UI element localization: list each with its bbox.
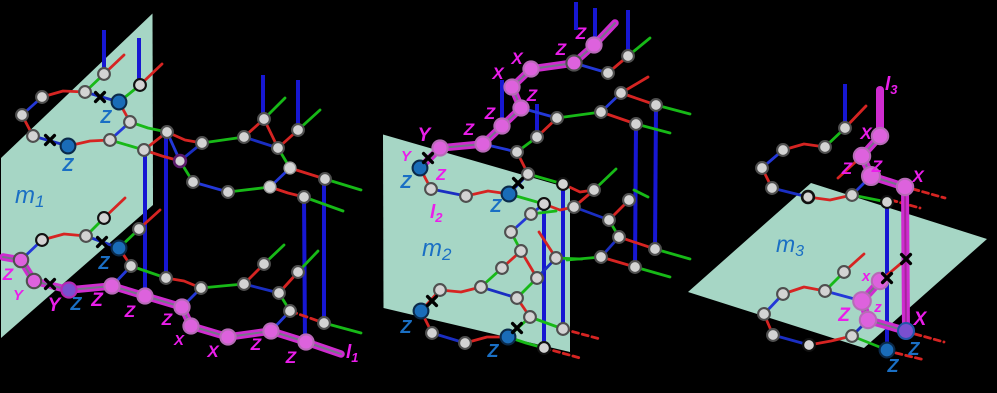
- green dangling edge from u1: [594, 169, 616, 190]
- svg-text:Z: Z: [487, 341, 500, 361]
- violet node bm2 (on path): [61, 282, 76, 297]
- blue edge d-w: [601, 237, 619, 257]
- x marker on edge n5-b1: [46, 136, 55, 145]
- path node r1: [872, 128, 888, 144]
- red edge t3-t4: [783, 287, 825, 294]
- green edge t1-g3: [528, 174, 563, 184]
- green edge t4-t2: [825, 272, 844, 291]
- node n21: [319, 173, 331, 185]
- red edge bm-m7: [119, 248, 131, 266]
- node k6: [496, 262, 508, 274]
- blue edge n5-b1: [33, 136, 68, 146]
- green edge l7-l8: [530, 317, 563, 329]
- green edge bm-n22: [119, 229, 139, 248]
- logical string l1 (thick magenta path): [3, 257, 341, 354]
- vertical edge above g4: [626, 10, 630, 56]
- node n1: [98, 68, 110, 80]
- node m7: [125, 260, 137, 272]
- node q1: [258, 258, 270, 270]
- svg-text:X: X: [911, 167, 925, 186]
- long vertical edge v1-bz5: [885, 202, 889, 350]
- blue edge p1-n11: [180, 143, 202, 161]
- node m12: [273, 287, 285, 299]
- violet node bv (on path): [898, 323, 914, 339]
- green dangling edge from n13: [264, 98, 285, 119]
- x marker on v1 vertical: [883, 274, 892, 283]
- red edge rx to vertical: [880, 260, 905, 281]
- red edge d-f: [619, 237, 655, 249]
- red edge bz3-l4: [421, 311, 432, 333]
- green edge m12-m10: [279, 293, 290, 311]
- path node pc2: [494, 118, 509, 133]
- node k3: [525, 208, 537, 220]
- node k4: [505, 226, 517, 238]
- green dangling edge from m13: [298, 251, 318, 272]
- blue edge s5-s6: [772, 188, 808, 197]
- node n20: [292, 124, 304, 136]
- node k10: [511, 292, 523, 304]
- red dangling edge from n22: [139, 210, 160, 229]
- node h2: [595, 106, 607, 118]
- red edge l3-k7: [440, 287, 481, 292]
- node n16: [222, 186, 234, 198]
- green dangling edge from m11: [324, 323, 361, 333]
- path node mp7: [298, 334, 313, 349]
- red dashed dangling edge from l9: [544, 348, 580, 358]
- blue edge r3-s7: [852, 176, 871, 195]
- blue edge t8-rz2: [852, 320, 868, 336]
- red edge k8-k5: [521, 251, 537, 278]
- long vertical edge n10-m8: [164, 132, 168, 278]
- red dangling edge from m0: [104, 198, 125, 218]
- vertical edge above pc2: [500, 80, 504, 126]
- svg-text:Z: Z: [841, 159, 853, 178]
- long vertical edge h7-f: [655, 105, 656, 249]
- node t5: [758, 308, 770, 320]
- red dashed edge m10-m11: [290, 311, 324, 323]
- svg-text:Z: Z: [887, 356, 900, 376]
- svg-text:X: X: [510, 49, 524, 68]
- node k1: [538, 198, 550, 210]
- blue edge t6-t7: [773, 335, 809, 345]
- red edge b2-n7: [119, 102, 130, 122]
- node m2: [80, 230, 92, 242]
- green edge m2-m0: [86, 218, 104, 236]
- node q2: [238, 278, 250, 290]
- node m13: [292, 266, 304, 278]
- green edge g1-g2: [517, 137, 537, 152]
- core line of l2: [420, 23, 615, 168]
- green edge n16-n17: [228, 187, 270, 192]
- red dashed dangling edge from bv: [915, 334, 944, 342]
- node n15: [187, 176, 199, 188]
- red edge c-e: [609, 200, 629, 220]
- path node mp6: [263, 323, 278, 338]
- blue edge k7-k10: [481, 287, 517, 298]
- node n7: [124, 116, 136, 128]
- svg-text:Z: Z: [463, 120, 475, 139]
- green dangling edge from q1: [264, 245, 284, 264]
- node s4: [756, 162, 768, 174]
- red edge w-g: [601, 257, 635, 267]
- node l4: [426, 327, 438, 339]
- blue node bz3: [414, 304, 429, 319]
- blue edge b-c: [574, 207, 609, 220]
- red dangling edge from h3: [621, 77, 648, 93]
- green edge b2-n6: [119, 85, 140, 102]
- blue node bz5: [880, 343, 895, 358]
- node m0: [98, 212, 110, 224]
- red edge n17-n19: [270, 187, 304, 197]
- red edge l2-bz2: [466, 191, 509, 196]
- node g1: [511, 146, 523, 158]
- path node pa: [432, 140, 447, 155]
- node s6: [802, 191, 814, 203]
- red dashed dangling edge from bz5: [896, 353, 925, 360]
- node s3: [777, 144, 789, 156]
- node u1: [588, 184, 600, 196]
- red dashed dangling edge from l8: [563, 329, 600, 339]
- green edge n2-n1: [85, 74, 104, 92]
- red dangling edge from t2: [844, 254, 864, 272]
- node k9: [550, 252, 562, 264]
- svg-text:Z: Z: [400, 172, 413, 192]
- node n19: [298, 191, 310, 203]
- node m11: [318, 317, 330, 329]
- x marker on edge l3-bz3: [428, 297, 437, 306]
- logical string l3 hook path: [862, 281, 906, 331]
- node t3: [777, 288, 789, 300]
- blue edge n18-n17: [270, 168, 290, 187]
- red dangling edge from s1: [845, 106, 866, 128]
- x marker on edge bz2-g3: [514, 179, 523, 188]
- path node mp4: [183, 318, 198, 333]
- svg-text:Z: Z: [2, 265, 14, 284]
- node l8: [557, 323, 569, 335]
- x marker on edge n2-b2: [96, 93, 105, 102]
- svg-text:X: X: [206, 342, 220, 361]
- long vertical edge k1-l9: [542, 204, 546, 348]
- path node m4: [27, 274, 41, 288]
- path node mp3: [174, 299, 189, 314]
- node n8: [104, 134, 116, 146]
- node c: [603, 214, 615, 226]
- node m1: [36, 234, 48, 246]
- path node m6: [104, 278, 119, 293]
- x marker on edge bz4-l7: [513, 324, 522, 333]
- blue node b1: [61, 139, 76, 154]
- node d: [613, 231, 625, 243]
- red edge b1-n8: [68, 140, 110, 146]
- green dangling edge from h4: [636, 124, 670, 133]
- green edge m9-q2: [201, 284, 244, 288]
- node t4: [819, 285, 831, 297]
- green edge p1-n15: [180, 161, 193, 182]
- node l3: [434, 284, 446, 296]
- node t2: [838, 266, 850, 278]
- path node r4: [897, 179, 913, 195]
- path node r2: [854, 148, 870, 164]
- x marker on l3 vertical: [902, 255, 911, 264]
- blue edge t4-rz1: [825, 291, 862, 301]
- node g2: [531, 131, 543, 143]
- green dangling edge from g4: [628, 38, 650, 56]
- green dangling edge near e: [634, 190, 648, 197]
- vertical edge above g2: [535, 104, 539, 137]
- node n2: [79, 86, 91, 98]
- path node rz1: [853, 292, 871, 310]
- blue edge mp6-m10: [271, 311, 290, 331]
- svg-text:Z: Z: [435, 167, 447, 184]
- green dangling edge from h7: [656, 105, 690, 114]
- blue edge h2-h3: [601, 93, 621, 112]
- svg-text:Z: Z: [70, 294, 83, 314]
- core line of l3 upper: [862, 136, 905, 187]
- blue node bm: [112, 241, 127, 256]
- node t1: [557, 178, 569, 190]
- node p1 (purple ring): [174, 155, 186, 167]
- svg-text:Z: Z: [484, 104, 496, 123]
- green edge n14-n18: [278, 148, 290, 168]
- node n12: [238, 131, 250, 143]
- node n18: [284, 162, 296, 174]
- green dangling edge from f: [655, 249, 690, 259]
- path node mp5: [220, 329, 235, 344]
- node v1: [881, 196, 893, 208]
- node m10: [284, 305, 296, 317]
- node s5: [766, 182, 778, 194]
- node n10: [161, 126, 173, 138]
- node s2: [819, 141, 831, 153]
- red dashed dangling edge from v1: [891, 200, 920, 208]
- red edge n10-n11: [167, 132, 202, 143]
- node t8: [846, 330, 858, 342]
- svg-text:Z: Z: [250, 335, 262, 354]
- blue edge n7-n8: [110, 122, 130, 140]
- node l7: [524, 311, 536, 323]
- node h1: [551, 112, 563, 124]
- node h4: [630, 118, 642, 130]
- red edge m12-m13: [279, 272, 298, 293]
- logical string l3 vertical stub: [876, 90, 884, 136]
- node h3: [615, 87, 627, 99]
- vertical edge above pf: [574, 2, 578, 30]
- green edge bz4-l7: [508, 317, 530, 337]
- svg-text:Z: Z: [837, 305, 851, 326]
- long vertical edge n9-mp2: [143, 150, 147, 296]
- blue edge pb-g1: [483, 144, 517, 152]
- node s7: [846, 189, 858, 201]
- red edge s4-s5: [762, 168, 772, 188]
- blue node bz2: [502, 187, 517, 202]
- red edge n9-p1: [144, 150, 180, 161]
- green dangling edge from n19: [304, 197, 343, 211]
- node k5: [515, 245, 527, 257]
- blue edge l1-l2: [431, 189, 466, 196]
- path node rz2: [860, 312, 876, 328]
- svg-text:Z: Z: [100, 107, 113, 127]
- red dangling edge from n1: [104, 55, 124, 74]
- svg-text:Z: Z: [555, 40, 567, 59]
- red edge m8-m9: [166, 278, 201, 288]
- node g4: [622, 50, 634, 62]
- svg-text:Z: Z: [161, 310, 173, 329]
- red edge h2-h4: [601, 112, 636, 124]
- path node pd2: [504, 79, 519, 94]
- red dangling edge from r2: [838, 156, 862, 178]
- node l5: [459, 337, 471, 349]
- core line of l3 hook: [862, 281, 906, 331]
- red dangling edge from k9: [539, 232, 556, 258]
- green edge k4-k5: [511, 232, 521, 251]
- node n14: [272, 142, 284, 154]
- red edge h3-h7: [621, 93, 656, 105]
- path node pg: [586, 37, 601, 52]
- green edge m7-m8: [131, 266, 166, 278]
- node g: [629, 261, 641, 273]
- node n13: [258, 113, 270, 125]
- logical string l3 path: [862, 136, 905, 187]
- path node pd: [513, 100, 528, 115]
- green edge s1-s2: [825, 128, 845, 147]
- logical string l3 long vertical: [905, 187, 906, 331]
- vertical edge above s1: [843, 84, 847, 128]
- green edge n7-n10: [130, 122, 167, 132]
- vertical edge above node n20: [296, 80, 300, 130]
- node l2p2: [460, 190, 472, 202]
- path node pb: [475, 136, 490, 151]
- green dangling edge from n20: [298, 110, 320, 130]
- node n22: [133, 223, 145, 235]
- green dangling edge from n21: [325, 179, 361, 190]
- node g5: [602, 67, 614, 79]
- path node r3: [862, 167, 880, 185]
- red dangling edge from n6: [140, 64, 162, 85]
- node l1p2: [425, 183, 437, 195]
- blue edge n4-n3: [22, 97, 42, 115]
- node l9: [538, 342, 550, 354]
- logical string l2 (thick magenta path): [420, 23, 615, 168]
- svg-text:X: X: [859, 124, 873, 143]
- blue edge t3-t5: [764, 294, 783, 314]
- blue edge n15-n16: [193, 182, 228, 192]
- node n17: [264, 181, 276, 193]
- node t7: [803, 339, 815, 351]
- path node pe: [523, 61, 538, 76]
- green edge bz2-k1: [509, 194, 544, 204]
- red edge bz-l1: [420, 168, 431, 189]
- node m9: [195, 282, 207, 294]
- blue edge n10-p1: [167, 132, 180, 161]
- red dashed dangling edge from r4: [913, 189, 945, 198]
- svg-text:Z: Z: [124, 302, 136, 321]
- vertical edge above pg: [593, 8, 597, 45]
- vertical edge above node n13: [261, 75, 265, 119]
- red edge g4-g5: [608, 56, 628, 73]
- green edge c-d: [609, 220, 619, 237]
- red edge n4-n5: [22, 115, 33, 136]
- node g3: [522, 168, 534, 180]
- svg-text:Z: Z: [285, 348, 297, 367]
- node n3: [36, 91, 48, 103]
- node t6: [767, 329, 779, 341]
- red edge t5-t6: [764, 314, 773, 335]
- node b: [568, 201, 580, 213]
- red edge n13-n14: [264, 119, 278, 148]
- red edge n3-n2: [42, 91, 85, 97]
- red edge t1-u1: [563, 184, 594, 192]
- long vertical edge h4-g: [635, 124, 636, 267]
- node s1: [839, 122, 851, 134]
- path node m3: [14, 253, 28, 267]
- node k8: [531, 272, 543, 284]
- node n6: [134, 79, 146, 91]
- node n9: [138, 144, 150, 156]
- blue edge k8-k9: [537, 258, 556, 278]
- membrane m1 (teal plane): [1, 14, 153, 339]
- blue edge pf-g5: [574, 63, 608, 73]
- blue edge n12-n14: [244, 137, 278, 148]
- svg-text:Z: Z: [62, 155, 75, 175]
- svg-text:Z: Z: [400, 317, 413, 337]
- svg-text:Z: Z: [98, 253, 111, 273]
- x marker on path m4-bm2: [46, 280, 55, 289]
- x marker on edge m2-bm: [98, 238, 107, 247]
- svg-text:Z: Z: [575, 24, 587, 43]
- svg-text:X: X: [913, 309, 928, 330]
- red edge n18-n21: [290, 168, 325, 179]
- node n5: [27, 130, 39, 142]
- blue edge m9-mp3: [182, 288, 201, 307]
- red edge l5-bz4: [465, 337, 508, 343]
- green edge n11-n12: [202, 137, 244, 143]
- svg-text:Z: Z: [490, 196, 503, 216]
- blue edge n2-b2: [85, 92, 119, 102]
- svg-text:Z: Z: [908, 339, 921, 359]
- node m8: [160, 272, 172, 284]
- red edge n12-n13: [244, 119, 264, 137]
- svg-text:z: z: [873, 299, 882, 316]
- svg-text:Z: Z: [526, 86, 538, 105]
- blue node bz4: [501, 330, 516, 345]
- green edge k6-k7: [481, 268, 502, 287]
- path node mp2: [137, 288, 152, 303]
- green dangling edge from k9: [556, 258, 582, 259]
- blue node b2: [112, 95, 127, 110]
- membrane m2 (teal plane): [383, 135, 570, 353]
- blue edge q2-m12: [244, 284, 279, 293]
- svg-text:X: X: [491, 64, 505, 83]
- node f: [649, 243, 661, 255]
- red edge b-u1: [574, 190, 594, 207]
- node h7: [650, 99, 662, 111]
- path node pf: [566, 55, 581, 70]
- vertical edge above node n1: [102, 30, 106, 74]
- vertical edge above node n6: [137, 38, 141, 85]
- blue edge bz2-g3: [509, 174, 528, 194]
- node n4: [16, 109, 28, 121]
- node e: [623, 194, 635, 206]
- green edge k10-k8: [517, 278, 537, 298]
- red edge g2-h1: [537, 118, 557, 137]
- green edge s7-v1: [852, 195, 887, 202]
- red edge s2-s3: [783, 144, 825, 150]
- green edge bz4-l9: [508, 337, 544, 348]
- green dangling edge from k3: [531, 211, 556, 214]
- green edge t8-bz5: [852, 336, 887, 350]
- core of l3 long vertical: [905, 187, 906, 331]
- blue edge m1-m3: [21, 240, 42, 260]
